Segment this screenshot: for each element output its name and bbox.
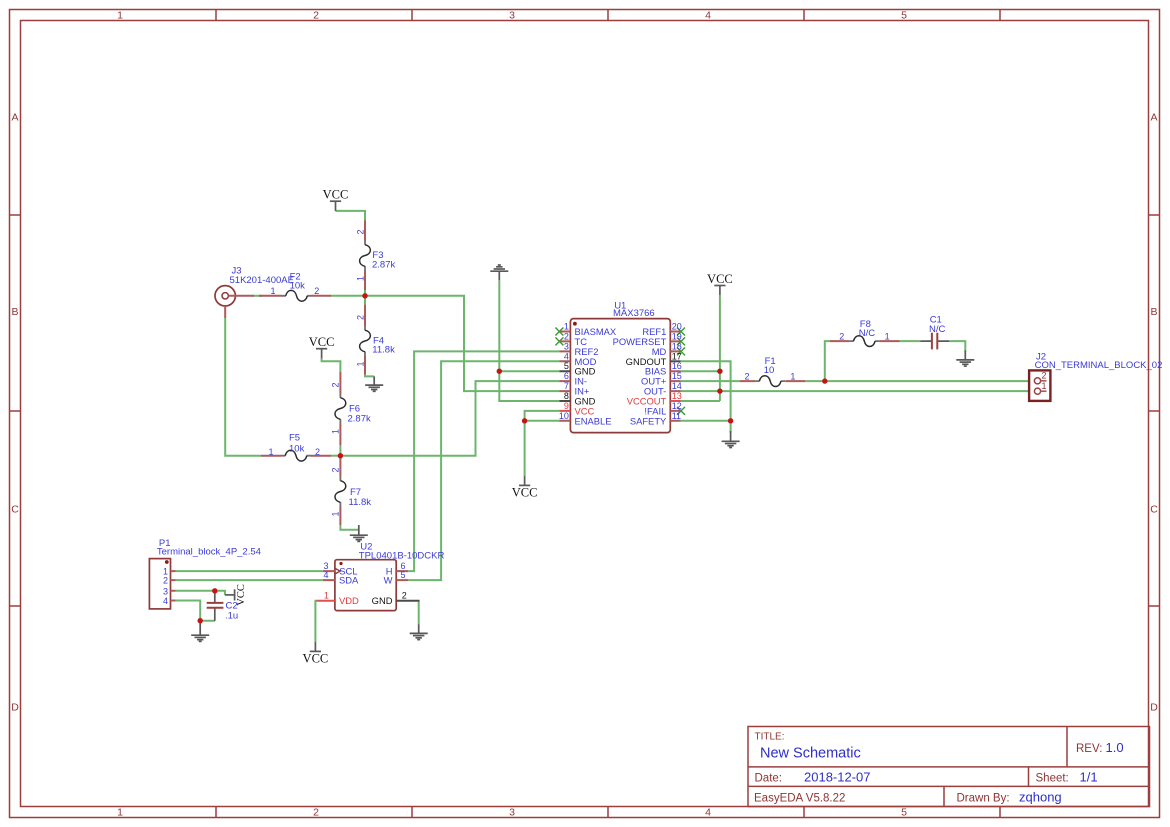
svg-text:New Schematic: New Schematic [760, 746, 861, 762]
svg-text:1: 1 [324, 591, 329, 601]
svg-text:1: 1 [331, 429, 341, 434]
junction OUT-/VCC rail [717, 388, 722, 393]
svg-text:N/C: N/C [859, 328, 876, 339]
svg-text:VCC: VCC [512, 486, 538, 500]
svg-text:20: 20 [672, 322, 682, 332]
svg-text:.1u: .1u [225, 611, 238, 622]
svg-text:Date:: Date: [755, 773, 783, 785]
junction U1 VCC/ENABLE [522, 418, 527, 423]
VCC symbol (top right rail) [707, 272, 733, 295]
wire U2 VDD to VCC [315, 601, 316, 642]
svg-text:10: 10 [559, 411, 569, 421]
wire U1 ENABLE pin10 [525, 420, 560, 422]
svg-text:4: 4 [705, 10, 711, 22]
svg-text:2: 2 [355, 229, 365, 234]
svg-text:C: C [1150, 504, 1158, 516]
connector P1 [149, 538, 261, 609]
wire node A to U1 IN+ [365, 296, 559, 391]
VCC symbol (below U2 VDD, inverted) [303, 642, 329, 666]
svg-text:Terminal_block_4P_2.54: Terminal_block_4P_2.54 [157, 547, 261, 558]
svg-text:18: 18 [672, 341, 682, 351]
junction BIAS/VCC rail [717, 369, 722, 374]
svg-text:5: 5 [901, 807, 907, 819]
svg-text:2: 2 [331, 467, 341, 472]
wire F2 to node A [331, 295, 366, 297]
wire U1 GNDOUT down to SAFETY node and ground [681, 361, 731, 433]
svg-text:VCC: VCC [707, 272, 733, 286]
svg-text:VCC: VCC [309, 335, 335, 349]
svg-text:4: 4 [163, 596, 168, 606]
svg-text:16: 16 [672, 361, 682, 371]
svg-text:14: 14 [672, 381, 682, 391]
svg-text:17: 17 [672, 351, 682, 361]
svg-text:B: B [11, 306, 18, 318]
wire U1 OUT+ to F1 [681, 380, 741, 382]
svg-text:2: 2 [313, 807, 319, 819]
svg-text:Sheet:: Sheet: [1036, 773, 1069, 785]
svg-text:1: 1 [564, 322, 569, 332]
wire U1 BIAS to VCC rail [681, 370, 720, 372]
wire F3 bottom to node A [364, 290, 366, 296]
junction SAFETY/GNDOUT [728, 418, 733, 423]
svg-text:D: D [1150, 702, 1158, 714]
wire P1 pin4 to ground [175, 601, 215, 621]
resistor F4 [355, 305, 395, 375]
VCC symbol (mid, F6) [309, 335, 335, 358]
VCC symbol (below U1 pin9, inverted) [512, 476, 538, 500]
svg-text:VCC: VCC [303, 652, 329, 666]
wire U2 H to U1 REF2 [408, 351, 559, 571]
capacitor C2 [207, 591, 239, 622]
svg-text:10k: 10k [289, 443, 305, 454]
svg-text:11: 11 [672, 411, 681, 421]
wire P1 pin2 to U2 SDA [175, 579, 323, 581]
junction U1 GND pin5 [497, 369, 502, 374]
capacitor C1 [920, 315, 949, 350]
wire node C up to F8 [825, 341, 830, 381]
junction P1 pin3/C2/VCC [212, 588, 217, 593]
svg-text:9: 9 [564, 401, 569, 411]
svg-text:2: 2 [355, 315, 365, 320]
svg-text:MAX3766: MAX3766 [613, 308, 655, 319]
wire F4 bottom to ground [365, 375, 374, 377]
wire U2 GND to ground [418, 602, 420, 625]
resistor F2 [259, 272, 331, 302]
ground (F7) [350, 525, 368, 541]
resistor F6 [331, 372, 371, 445]
svg-text:2: 2 [313, 10, 319, 22]
no-connect X pin20 [677, 328, 685, 336]
no-connect X pin1 [555, 328, 563, 336]
svg-text:EasyEDA V5.8.22: EasyEDA V5.8.22 [754, 793, 845, 805]
svg-text:1: 1 [331, 511, 341, 516]
svg-text:1/1: 1/1 [1080, 770, 1098, 785]
VCC symbol (right of P1 pin3, rotated) [225, 584, 247, 606]
svg-text:2: 2 [163, 576, 168, 586]
svg-text:2.87k: 2.87k [372, 260, 395, 271]
wire U1 OUT- to J2 pin1 [681, 390, 1030, 392]
title block text [754, 732, 1124, 805]
svg-text:D: D [11, 702, 19, 714]
ground (P1 pin4) [191, 622, 209, 641]
junction node B (F5/F6/F7) [338, 453, 343, 458]
svg-text:12: 12 [672, 401, 682, 411]
connector J2 [1029, 352, 1162, 401]
resistor F5 [261, 433, 331, 462]
IC U1 MAX3766 [559, 301, 682, 433]
svg-text:4: 4 [564, 351, 569, 361]
connector J3 [215, 266, 294, 319]
svg-text:1: 1 [268, 447, 273, 457]
svg-text:3: 3 [509, 807, 515, 819]
svg-text:3: 3 [163, 586, 168, 596]
svg-text:VDD: VDD [339, 595, 359, 606]
resistor F1 [740, 356, 805, 387]
resistor F8 [830, 319, 900, 347]
svg-text:A: A [11, 112, 18, 124]
svg-text:1: 1 [885, 331, 890, 341]
svg-text:W: W [384, 575, 393, 586]
wire J3 down to F5 [225, 318, 261, 456]
svg-text:A: A [1150, 112, 1157, 124]
svg-text:19: 19 [672, 331, 682, 341]
svg-text:Drawn By:: Drawn By: [957, 793, 1010, 805]
wire C1 to ground [949, 341, 965, 351]
wire VCC to F3 top [336, 211, 366, 221]
svg-text:1: 1 [1042, 381, 1047, 391]
svg-text:1: 1 [270, 286, 275, 296]
svg-text:10: 10 [764, 365, 775, 376]
wire P1 pin3 to VCC [175, 591, 225, 595]
wire U1 SAFETY to node [681, 420, 731, 422]
wire node to U1 GND pin5 [499, 370, 559, 372]
svg-text:4: 4 [323, 570, 328, 580]
resistor F3 [355, 221, 395, 291]
svg-text:1: 1 [355, 276, 365, 281]
svg-text:1.0: 1.0 [1106, 740, 1124, 755]
ground (GNDOUT/SAFETY) [722, 431, 740, 448]
wire U1 VCC pin9 down [525, 411, 560, 476]
svg-text:CON_TERMINAL_BLOCK_02: CON_TERMINAL_BLOCK_02 [1035, 360, 1163, 371]
svg-text:2: 2 [402, 591, 407, 601]
svg-text:10k: 10k [290, 281, 306, 292]
frame column labels top [117, 10, 907, 22]
no-connect X pin19 [677, 337, 685, 345]
svg-text:2: 2 [314, 286, 319, 296]
svg-text:5: 5 [400, 570, 405, 580]
svg-text:8: 8 [564, 391, 569, 401]
svg-text:51K201-400AE: 51K201-400AE [230, 275, 294, 286]
svg-text:ENABLE: ENABLE [575, 415, 612, 426]
wire U1 VCCOUT to VCC rail [681, 400, 720, 402]
svg-text:VCC: VCC [323, 188, 349, 202]
svg-text:1: 1 [355, 361, 365, 366]
svg-text:2018-12-07: 2018-12-07 [804, 770, 871, 785]
svg-text:B: B [1150, 306, 1157, 318]
no-connect X pin18 [677, 347, 685, 355]
svg-text:2: 2 [564, 331, 569, 341]
svg-text:2: 2 [331, 382, 341, 387]
frame column labels bottom [117, 807, 907, 819]
svg-text:7: 7 [564, 381, 569, 391]
wire ground-up to U1 GND pins 5 and 8 [499, 280, 559, 401]
svg-text:5: 5 [564, 361, 569, 371]
wire node A to F4 top [364, 296, 366, 305]
wire F7 bottom to ground [340, 525, 358, 530]
ground (C1) [956, 351, 974, 367]
svg-text:1: 1 [790, 371, 795, 381]
svg-text:TITLE:: TITLE: [755, 732, 785, 743]
svg-text:2: 2 [744, 371, 749, 381]
svg-text:2: 2 [315, 447, 320, 457]
wire F8 to C1 [900, 340, 921, 342]
wire node B to F7 top [339, 456, 341, 459]
VCC symbol (top of F3) [323, 188, 349, 211]
junction node A (F2/F3/F4) [362, 293, 367, 298]
wire F6 bottom to node B [339, 445, 341, 456]
svg-text:SAFETY: SAFETY [630, 415, 667, 426]
ground (U2 GND) [410, 625, 428, 640]
svg-text:11.8k: 11.8k [349, 497, 372, 508]
svg-text:2: 2 [839, 331, 844, 341]
svg-text:3: 3 [509, 10, 515, 22]
wire P1 pin1 to U2 SCL [175, 570, 323, 572]
svg-text:SDA: SDA [339, 575, 359, 586]
resistor F7 [331, 458, 372, 525]
svg-text:2.87k: 2.87k [348, 414, 371, 425]
IC U2 TPL0401B-10DCKR [317, 542, 445, 611]
wire VCC rail right [719, 295, 721, 401]
wire F1 to J2 pin2 [805, 380, 1030, 382]
svg-text:TPL0401B-10DCKR: TPL0401B-10DCKR [359, 551, 445, 562]
svg-text:GND: GND [372, 595, 393, 606]
wire J3 to F2 [253, 295, 263, 297]
svg-text:F5: F5 [289, 433, 300, 444]
wire node B to U1 IN- [340, 381, 559, 456]
wire U2 W to U1 MOD [408, 361, 559, 580]
frame row labels left [11, 112, 19, 714]
wire VCC to F6 top [322, 358, 341, 372]
svg-text:4: 4 [705, 807, 711, 819]
ground (F4) [365, 376, 383, 391]
ground rotated up (U1 GND net) [490, 265, 508, 280]
title block [748, 727, 1150, 807]
frame row labels right [1150, 112, 1158, 714]
svg-text:13: 13 [672, 391, 682, 401]
svg-text:REV:: REV: [1076, 743, 1102, 755]
svg-text:15: 15 [672, 371, 682, 381]
no-connect X pin2 [555, 337, 563, 345]
svg-text:N/C: N/C [929, 324, 946, 335]
svg-text:1: 1 [117, 10, 123, 22]
svg-text:6: 6 [564, 371, 569, 381]
svg-text:zqhong: zqhong [1019, 790, 1062, 805]
junction P1 pin4/C2/ground [198, 618, 203, 623]
svg-text:1: 1 [117, 807, 123, 819]
junction OUT+/F8 [822, 378, 827, 383]
svg-text:C: C [11, 504, 19, 516]
svg-text:3: 3 [564, 341, 569, 351]
wire F5 to node B [331, 455, 340, 457]
no-connect X pin12 [677, 407, 685, 415]
svg-text:5: 5 [901, 10, 907, 22]
svg-text:2: 2 [1042, 371, 1047, 381]
svg-text:11.8k: 11.8k [372, 345, 395, 356]
